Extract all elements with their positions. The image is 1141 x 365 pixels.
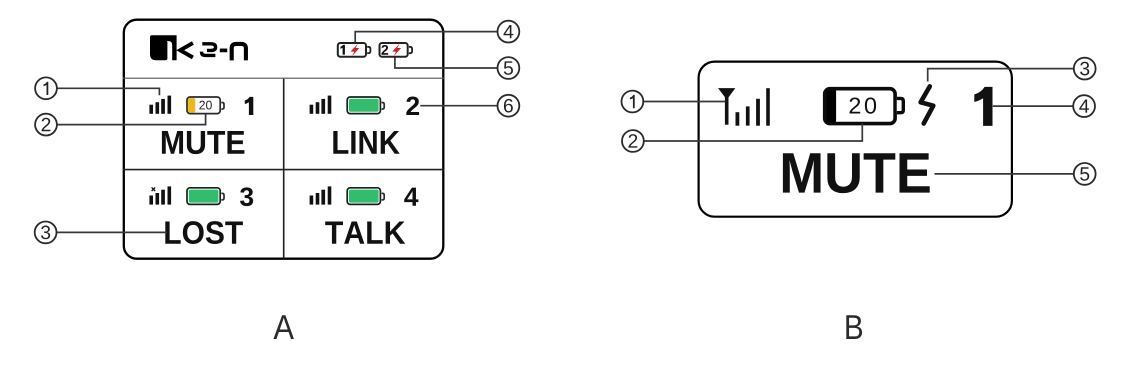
wire callout 2 (B): [644, 124, 863, 142]
callout circle 1 (A): [35, 77, 57, 99]
quadrant 1 signal bars: [149, 96, 171, 114]
quadrant 4 signal bars: [310, 186, 332, 204]
callout circle 2 (A): [35, 114, 57, 136]
callout circle 3 (A): [35, 222, 57, 244]
quadrant 4 label TALK: [325, 222, 405, 244]
quadrant 3 signal bars with lost mark: [149, 186, 171, 204]
quadrant 4 channel digit: [404, 188, 418, 206]
wire callout 3 (B): [928, 69, 1074, 82]
wire callout 3 (A): [57, 231, 168, 233]
charging battery 1: [338, 43, 371, 57]
battery B: [825, 89, 904, 124]
antenna icon: [718, 88, 770, 126]
quadrant 2 label LINK: [333, 131, 399, 154]
wire callout 1 (A): [57, 88, 159, 95]
label A: [273, 315, 294, 339]
callout circle 5 (A): [498, 57, 520, 79]
label B: [846, 315, 862, 339]
charging battery 2: [380, 43, 413, 57]
wire callout 4 (B): [993, 105, 1073, 107]
panel A frame: [124, 20, 444, 259]
callout circle 6 (A): [498, 95, 520, 117]
wire callout 4 (A): [355, 32, 497, 43]
quadrant 3 lost cross: [152, 187, 156, 191]
callout circle 5 (B): [1074, 163, 1096, 185]
quadrant 3 battery (green): [187, 188, 224, 205]
quadrant 2 battery (green): [347, 97, 384, 114]
wire callout 5 (A): [395, 58, 498, 69]
quadrant 2 signal bars: [310, 96, 332, 114]
callout circle 3 (B): [1074, 58, 1096, 80]
ikan logo: [150, 35, 246, 60]
wire callout 1 (B): [643, 101, 725, 103]
quadrant 1 label MUTE: [162, 131, 245, 154]
label MUTE B: [783, 153, 930, 193]
wire callout 6 (A): [420, 105, 497, 107]
wire callout 5 (B): [935, 173, 1074, 175]
quadrant 2 channel digit: [406, 97, 419, 115]
quadrant 4 battery (green): [347, 188, 384, 205]
quadrant 1 battery (yellow 20): [187, 97, 224, 114]
quadrant 3 channel digit: [240, 187, 253, 206]
quadrant 1 channel digit: [245, 97, 254, 115]
panel B frame: [699, 62, 1012, 217]
horizontal mid divider: [123, 169, 444, 171]
vertical mid divider: [283, 79, 285, 259]
charging bolt B: [921, 86, 934, 123]
callout circle 4 (A): [498, 21, 520, 43]
channel digit B: [974, 87, 992, 126]
callout circle 4 (B): [1073, 95, 1095, 117]
callout circle 2 (B): [622, 130, 644, 152]
quadrant 3 label LOST: [165, 221, 243, 244]
divider below logo: [123, 77, 444, 79]
callout circle 1 (B): [622, 91, 644, 113]
wire callout 2 (A): [57, 114, 206, 125]
